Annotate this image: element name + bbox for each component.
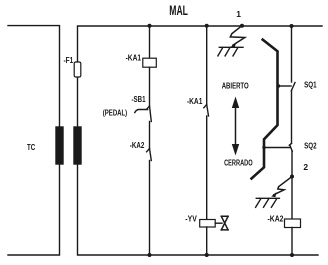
- svg-text:SQ2: SQ2: [304, 141, 317, 150]
- wire contact KA1 to coil YV: [206, 116, 208, 220]
- svg-text:-F1: -F1: [64, 56, 74, 65]
- svg-text:-KA1: -KA1: [126, 53, 142, 62]
- wire coil YV to bottom rail: [206, 227, 208, 255]
- svg-text:MAL: MAL: [169, 2, 188, 18]
- motion arrow head down: [232, 144, 239, 156]
- frame hatch line node 1: [218, 47, 243, 56]
- relay coil KA2: [285, 219, 301, 228]
- junction node 2: [290, 175, 294, 179]
- svg-text:1: 1: [236, 9, 241, 19]
- cam plate: [252, 40, 278, 179]
- junction branch3 top: [290, 24, 294, 28]
- motion arrow head up: [232, 97, 239, 109]
- SQ2 actuator link: [264, 147, 290, 149]
- wire top rail to contact KA1: [206, 26, 208, 105]
- striker arrowhead node 1: [231, 43, 236, 48]
- svg-text:CERRADO: CERRADO: [224, 158, 253, 167]
- svg-text:-KA2: -KA2: [268, 215, 284, 224]
- wire coil KA1 to contact SB1: [149, 67, 151, 106]
- svg-text:ABIERTO: ABIERTO: [222, 81, 249, 90]
- wire SQ2 to node 2: [291, 151, 293, 176]
- svg-text:(PEDAL): (PEDAL): [103, 108, 128, 117]
- transformer TC left winding: [56, 127, 63, 164]
- contact KA2 NO: [147, 149, 152, 161]
- SQ1 actuator link: [279, 85, 292, 87]
- wire node 2 to coil KA2: [291, 177, 293, 220]
- striker arrowhead node 2: [271, 192, 276, 197]
- motion arrow shaft: [235, 105, 237, 147]
- solenoid coil YV: [200, 220, 216, 228]
- fuse F1: [74, 62, 81, 77]
- svg-text:TC: TC: [27, 143, 35, 152]
- pedal actuator of SB1: [135, 110, 148, 113]
- junction branch3 bottom: [290, 253, 294, 257]
- svg-text:2: 2: [303, 162, 308, 172]
- wire SB1 to contact KA2: [149, 122, 151, 149]
- striker zigzag node 1: [230, 26, 245, 45]
- junction branch1 top: [148, 24, 152, 28]
- junction branch2 bottom: [205, 253, 209, 257]
- wire SQ1 to SQ2: [291, 91, 293, 144]
- wire top rail to SQ1: [291, 26, 293, 82]
- wire TC primary left loop: [8, 26, 60, 255]
- wire coil KA2 to bottom rail: [291, 228, 293, 256]
- junction node 1: [240, 24, 244, 28]
- SQ1 actuator dot: [277, 84, 280, 87]
- wire main rails (top and bottom): [78, 26, 323, 255]
- limit switch SQ1 blade: [291, 83, 295, 91]
- svg-text:-KA2: -KA2: [130, 141, 145, 150]
- contact KA1 NO: [204, 105, 209, 117]
- valve symbol: [221, 216, 228, 230]
- junction branch2 top: [205, 24, 209, 28]
- wire contact KA2 to bottom rail: [149, 161, 151, 256]
- transformer TC right winding: [74, 127, 81, 164]
- junction branch1 bottom: [148, 253, 152, 257]
- SQ2 actuator dot: [262, 146, 265, 149]
- svg-text:SQ1: SQ1: [304, 80, 317, 89]
- svg-text:-SB1: -SB1: [132, 95, 146, 104]
- relay coil KA1: [143, 58, 157, 67]
- frame hatch line node 2: [256, 198, 280, 207]
- wire top rail to coil KA1: [149, 26, 151, 58]
- svg-text:-YV: -YV: [185, 215, 197, 224]
- svg-text:-KA1: -KA1: [187, 97, 203, 106]
- limit switch SQ2 blade: [289, 143, 292, 151]
- striker zigzag node 2: [274, 177, 292, 195]
- pushbutton SB1 NO contact: [147, 106, 152, 122]
- valve link wire: [215, 222, 222, 224]
